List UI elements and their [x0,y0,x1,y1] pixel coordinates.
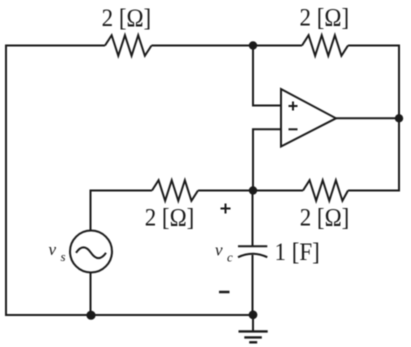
wire: middle rail from R3 to node B [198,190,253,192]
op-amp U1 [281,89,336,147]
wire: middle rail from node B to R4 [253,190,303,192]
wire: op-amp output to right vertical [336,117,399,119]
svg-text:1 [F]: 1 [F] [275,238,320,266]
wire: left side loop (top-left corner, left vertical, bottom horizontal) [6,46,253,316]
resistor R4 (middle right, 2 ohm) [303,180,348,201]
ground bar 3 [249,341,257,343]
resistor R3 (middle left, 2 ohm) [152,180,198,201]
ground bar 2 [244,336,261,338]
op-amp U1 minus input marker [289,128,298,130]
wire: top right corner and right vertical down to middle rail [348,46,399,191]
junction node A (top, inputs join) [249,41,257,49]
capacitor C1 top lead from node B [252,191,254,247]
ground stem [252,315,254,331]
svg-text:2 [Ω]: 2 [Ω] [102,4,152,32]
junction node at ground [249,310,258,319]
op-amp U1 plus input marker [289,102,298,111]
svg-text:vs: vs [49,240,66,264]
svg-text:vc: vc [215,241,233,265]
svg-text:2 [Ω]: 2 [Ω] [300,203,350,231]
svg-text:2 [Ω]: 2 [Ω] [145,203,195,231]
resistor R1 (top left, 2 ohm) [105,35,152,56]
wire: source bottom terminal to bottom rail [90,273,92,316]
minus polarity marker of capacitor voltage [219,291,230,294]
ground bar 1 [239,330,268,332]
wire: top middle segment between R1 and node A [152,45,303,47]
plus polarity marker of capacitor voltage [221,204,231,214]
capacitor C1 curved bottom plate [238,254,267,258]
voltage source VS sine mark [76,247,106,258]
resistor R2 (top right feedback, 2 ohm) [302,35,348,56]
capacitor C1 top plate [238,245,267,247]
wire: middle rail left end down to source top terminal [91,191,153,231]
junction node at source bottom [86,311,95,320]
wire: op-amp inverting input down to node B [253,129,281,190]
voltage source VS circle [70,231,112,273]
wire: op-amp non-inverting input from node A [253,46,281,106]
junction node at op-amp output [395,114,403,122]
capacitor C1 bottom lead to bottom rail [252,255,254,315]
junction node B (middle rail) [249,186,257,194]
svg-text:2 [Ω]: 2 [Ω] [299,4,349,32]
